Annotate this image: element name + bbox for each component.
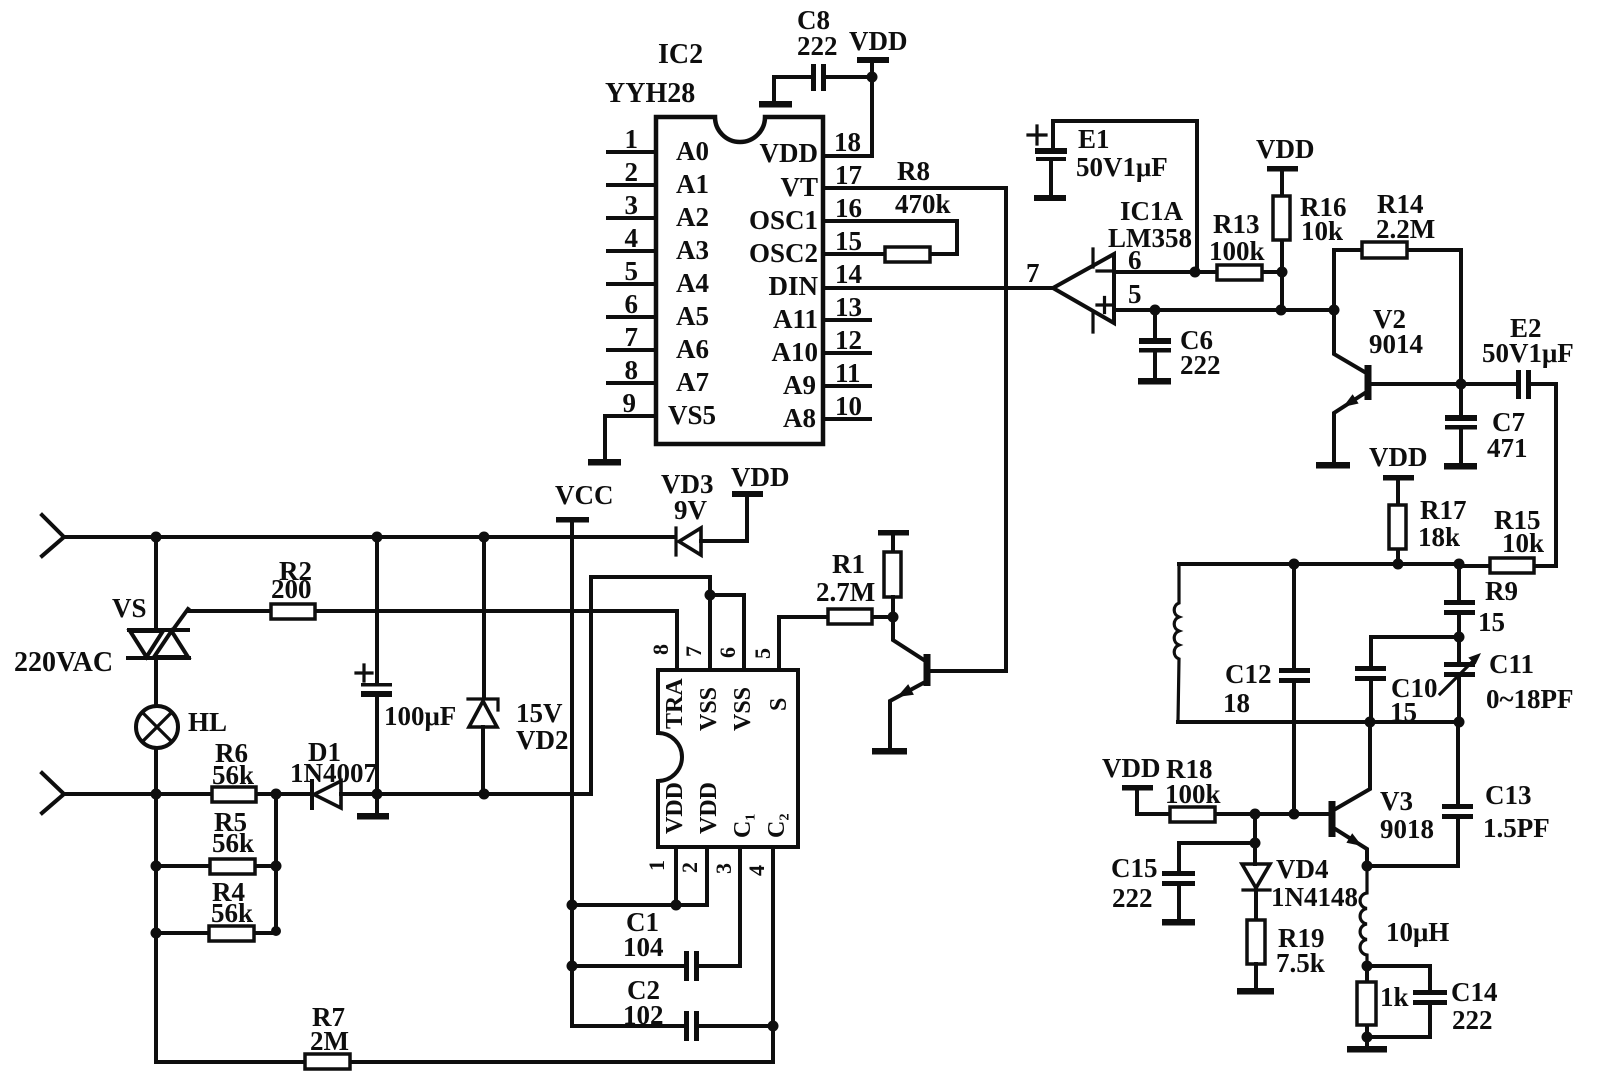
resistor R4 56k bbox=[156, 877, 276, 941]
U2 pin labels bottom row bbox=[662, 782, 790, 838]
svg-text:5: 5 bbox=[1128, 279, 1142, 309]
IC2 pin 2 bbox=[608, 157, 656, 187]
IC2 pin 3 bbox=[608, 190, 656, 220]
resistor R5 56k bbox=[156, 807, 276, 874]
svg-text:4: 4 bbox=[625, 223, 639, 253]
svg-text:A10: A10 bbox=[772, 337, 819, 367]
IC2 pin 4 bbox=[608, 223, 656, 253]
diode VD3 9V bbox=[661, 469, 747, 555]
U2 pins 7,6 (VSS) bbox=[681, 577, 744, 670]
svg-text:YYH28: YYH28 bbox=[605, 78, 695, 109]
capacitor E1 50V1uF electrolytic bbox=[1028, 121, 1168, 195]
capacitor R9 15 (series cap below R15 node) bbox=[1444, 564, 1518, 637]
capacitor C14 222 bbox=[1367, 966, 1498, 1037]
U2 pin 4 (C2) bbox=[696, 847, 779, 1062]
U2 pin 3 (C1) bbox=[696, 847, 740, 966]
IC2 pin 10 bbox=[823, 391, 870, 421]
svg-text:R1: R1 bbox=[832, 549, 865, 579]
svg-text:LM358: LM358 bbox=[1108, 223, 1192, 253]
svg-text:C15: C15 bbox=[1111, 853, 1158, 883]
transistor V3 9018 bbox=[1332, 722, 1434, 866]
IC2 pin 5 bbox=[608, 256, 656, 286]
svg-text:2.2M: 2.2M bbox=[1376, 214, 1435, 244]
svg-text:R8: R8 bbox=[897, 156, 930, 186]
wire VD4 branch bbox=[1179, 814, 1261, 849]
svg-text:V3: V3 bbox=[1380, 786, 1413, 816]
svg-text:TRA: TRA bbox=[662, 678, 688, 729]
svg-text:14: 14 bbox=[835, 259, 862, 289]
svg-text:VS: VS bbox=[112, 593, 147, 623]
svg-text:A2: A2 bbox=[676, 202, 709, 232]
capacitor E2 50V1uF bbox=[1461, 313, 1574, 566]
svg-text:15: 15 bbox=[1478, 607, 1505, 637]
svg-text:9014: 9014 bbox=[1369, 329, 1423, 359]
svg-text:IC1A: IC1A bbox=[1120, 196, 1184, 226]
VDD bar at VD3 bbox=[731, 462, 790, 497]
ground bar below E1 bbox=[1034, 195, 1066, 201]
svg-text:1N4148: 1N4148 bbox=[1271, 882, 1358, 912]
svg-text:3: 3 bbox=[625, 190, 639, 220]
svg-text:A9: A9 bbox=[783, 370, 816, 400]
VDD + resistor R17 18k bbox=[1369, 442, 1467, 564]
svg-text:VDD: VDD bbox=[731, 462, 790, 492]
capacitor C1 104 bbox=[572, 907, 699, 981]
wire top AC rail bbox=[64, 532, 674, 543]
ground below C6 bbox=[1138, 378, 1171, 385]
svg-text:10: 10 bbox=[835, 391, 862, 421]
svg-text:VD4: VD4 bbox=[1276, 854, 1329, 884]
capacitor C8 222 bbox=[774, 5, 872, 101]
svg-text:9018: 9018 bbox=[1380, 814, 1434, 844]
svg-text:1N4007: 1N4007 bbox=[290, 758, 377, 788]
IC2 right pin labels bbox=[749, 138, 819, 433]
svg-text:102: 102 bbox=[623, 1000, 664, 1030]
capacitor C12 18 bbox=[1223, 564, 1310, 814]
ground below 100uF bbox=[357, 813, 389, 820]
resistor R13 100k bbox=[1195, 209, 1281, 280]
svg-text:VCC: VCC bbox=[555, 480, 614, 510]
wire AC neutral bbox=[64, 789, 591, 800]
svg-text:R9: R9 bbox=[1485, 576, 1518, 606]
svg-text:A5: A5 bbox=[676, 301, 709, 331]
wire tank bottom rail bbox=[1178, 717, 1465, 728]
ground below C7 bbox=[1444, 463, 1477, 470]
ground at IC2 pin 9 bbox=[588, 459, 621, 466]
svg-text:A3: A3 bbox=[676, 235, 709, 265]
svg-text:50V1μF: 50V1μF bbox=[1482, 338, 1574, 368]
svg-text:A0: A0 bbox=[676, 136, 709, 166]
transistor V2 9014 bbox=[1334, 304, 1461, 462]
svg-text:1.5PF: 1.5PF bbox=[1483, 813, 1550, 843]
svg-text:5: 5 bbox=[750, 648, 775, 659]
svg-text:222: 222 bbox=[1112, 883, 1153, 913]
capacitor 100uF electrolytic bbox=[356, 537, 456, 813]
transistor V1 bbox=[890, 617, 1006, 748]
diode VD4 1N4148 bbox=[1242, 843, 1358, 920]
svg-text:C₁: C₁ bbox=[730, 813, 756, 838]
svg-text:VDD: VDD bbox=[849, 26, 908, 56]
svg-text:C12: C12 bbox=[1225, 659, 1272, 689]
ground below V2 bbox=[1316, 462, 1350, 469]
svg-text:56k: 56k bbox=[211, 898, 253, 928]
svg-text:IC2: IC2 bbox=[658, 39, 703, 70]
ground below C15 bbox=[1162, 919, 1195, 926]
resistor R2 200 bbox=[189, 556, 677, 619]
svg-text:C14: C14 bbox=[1451, 977, 1498, 1007]
svg-text:E1: E1 bbox=[1078, 124, 1110, 154]
svg-text:VSS: VSS bbox=[730, 687, 756, 731]
svg-text:200: 200 bbox=[271, 574, 312, 604]
svg-text:A11: A11 bbox=[773, 304, 818, 334]
capacitor C7 471 bbox=[1445, 379, 1528, 464]
inductor 10uH bbox=[1360, 866, 1449, 966]
svg-text:4: 4 bbox=[744, 865, 769, 876]
svg-text:2M: 2M bbox=[310, 1026, 349, 1056]
svg-text:18: 18 bbox=[834, 127, 861, 157]
IC2 pin 13 bbox=[823, 292, 870, 322]
VDD bar above pin18 bbox=[849, 26, 908, 83]
svg-text:50V1μF: 50V1μF bbox=[1076, 152, 1168, 182]
wire op-amp pin 5 bbox=[1114, 305, 1340, 316]
wire VSS riser bbox=[591, 577, 710, 794]
wire E1 loop to pin6 node bbox=[1053, 121, 1197, 272]
label 220VAC bbox=[14, 647, 113, 678]
svg-text:10k: 10k bbox=[1301, 216, 1343, 246]
svg-text:DIN: DIN bbox=[768, 271, 818, 301]
svg-text:1: 1 bbox=[625, 124, 639, 154]
svg-text:C₂: C₂ bbox=[764, 813, 790, 838]
svg-text:A4: A4 bbox=[676, 268, 709, 298]
svg-text:18: 18 bbox=[1223, 688, 1250, 718]
svg-text:56k: 56k bbox=[212, 760, 254, 790]
svg-text:C13: C13 bbox=[1485, 780, 1532, 810]
resistor R6 56k bbox=[212, 738, 256, 802]
svg-text:56k: 56k bbox=[212, 828, 254, 858]
svg-text:VDD: VDD bbox=[696, 782, 722, 834]
VCC symbol and rail down to U2 bbox=[555, 480, 614, 1026]
lamp HL bbox=[136, 706, 227, 748]
wire R6/R5/R4 right vertical bbox=[271, 794, 282, 936]
svg-text:A6: A6 bbox=[676, 334, 709, 364]
svg-text:8: 8 bbox=[625, 355, 639, 385]
svg-text:VS5: VS5 bbox=[668, 400, 716, 430]
svg-text:6: 6 bbox=[625, 289, 639, 319]
capacitor C15 222 bbox=[1111, 843, 1195, 919]
svg-text:OSC2: OSC2 bbox=[749, 238, 818, 268]
svg-text:7.5k: 7.5k bbox=[1276, 948, 1325, 978]
svg-text:100k: 100k bbox=[1165, 779, 1221, 809]
ground below V1 bbox=[872, 748, 907, 755]
input terminal top (AC line) bbox=[42, 515, 64, 556]
VDD + resistor R18 100k bbox=[1102, 753, 1332, 822]
capacitor C2 102 bbox=[572, 966, 699, 1041]
svg-text:13: 13 bbox=[835, 292, 862, 322]
svg-text:A1: A1 bbox=[676, 169, 709, 199]
IC2 pin 16 (OSC1) bbox=[823, 193, 957, 254]
ground below 1k bbox=[1347, 1046, 1387, 1053]
IC2 pin 7 bbox=[608, 322, 656, 352]
IC2 pin 17 (VT) long wire down to V1 collector bbox=[823, 160, 1006, 671]
resistor R14 2.2M feedback bbox=[1334, 189, 1461, 384]
svg-text:3: 3 bbox=[711, 863, 736, 874]
svg-text:15V: 15V bbox=[516, 698, 563, 728]
capacitor C13 1.5PF bbox=[1442, 722, 1550, 866]
svg-text:16: 16 bbox=[835, 193, 862, 223]
capacitor C11 0~18PF variable bbox=[1440, 632, 1574, 723]
resistor R7 2M bbox=[156, 1002, 773, 1069]
capacitor C6 222 bbox=[1139, 310, 1221, 380]
svg-text:VSS: VSS bbox=[696, 687, 722, 731]
input terminal bottom (AC neutral) bbox=[42, 773, 64, 813]
svg-text:VDD: VDD bbox=[1256, 134, 1315, 164]
resistor R15 10k bbox=[1459, 505, 1544, 573]
svg-text:2: 2 bbox=[625, 157, 639, 187]
IC2 pin 14 (DIN) to op-amp output bbox=[823, 259, 1053, 289]
zener VD2 15V bbox=[468, 537, 569, 794]
svg-text:10k: 10k bbox=[1502, 528, 1544, 558]
U2 pin 5 (S) bbox=[750, 617, 779, 670]
svg-text:R17: R17 bbox=[1420, 495, 1467, 525]
svg-text:A8: A8 bbox=[783, 403, 816, 433]
svg-text:7: 7 bbox=[625, 322, 639, 352]
IC2 pin 9 (VS5) to ground bbox=[605, 388, 656, 459]
svg-text:1k: 1k bbox=[1380, 982, 1409, 1012]
IC2 pin 12 bbox=[823, 325, 870, 355]
U2 pin 8 (TRA) bbox=[648, 611, 677, 670]
inductor (tank coil) bbox=[1174, 564, 1179, 722]
svg-text:0~18PF: 0~18PF bbox=[1486, 684, 1574, 714]
svg-text:VD2: VD2 bbox=[516, 725, 569, 755]
svg-text:HL: HL bbox=[188, 707, 227, 737]
svg-text:9V: 9V bbox=[674, 495, 708, 525]
svg-text:2.7M: 2.7M bbox=[816, 577, 875, 607]
capacitor C10 15 bbox=[1355, 637, 1459, 727]
IC2 pin 1 bbox=[608, 124, 656, 154]
svg-text:11: 11 bbox=[835, 358, 861, 388]
IC2 pin 18 (VDD) bbox=[823, 77, 872, 157]
ground at C8 bbox=[759, 101, 792, 108]
svg-text:VDD: VDD bbox=[662, 782, 688, 834]
svg-text:2: 2 bbox=[677, 862, 702, 873]
wire tank top rail bbox=[1179, 559, 1465, 570]
svg-text:471: 471 bbox=[1487, 433, 1528, 463]
svg-text:7: 7 bbox=[681, 646, 706, 657]
IC2 pin 8 bbox=[608, 355, 656, 385]
svg-text:1: 1 bbox=[644, 860, 669, 871]
svg-text:S: S bbox=[766, 698, 792, 711]
svg-text:12: 12 bbox=[835, 325, 862, 355]
svg-text:VDD: VDD bbox=[760, 138, 819, 168]
svg-text:C11: C11 bbox=[1489, 649, 1534, 679]
ground below R19 bbox=[1237, 988, 1274, 995]
svg-text:7: 7 bbox=[1026, 258, 1040, 288]
svg-text:18k: 18k bbox=[1418, 522, 1460, 552]
svg-text:5: 5 bbox=[625, 256, 639, 286]
svg-text:8: 8 bbox=[648, 644, 673, 655]
power bar above R1 bbox=[878, 530, 909, 552]
IC2 pin 6 bbox=[608, 289, 656, 319]
IC U2 body (TRA/VSS/VSS/S, VDD/VDD/C1/C2) bbox=[658, 670, 798, 847]
resistor R1 2.7M bbox=[779, 549, 899, 624]
op-amp IC1A LM358 bbox=[1026, 196, 1192, 332]
IC2 pin 11 bbox=[823, 358, 870, 388]
diode D1 1N4007 bbox=[290, 737, 377, 808]
IC2 left pin labels A0-A7,VS5 bbox=[668, 136, 716, 430]
svg-text:VDD: VDD bbox=[1369, 442, 1428, 472]
IC2 pin 15 (OSC2) + resistor R8 470k bbox=[823, 156, 957, 262]
svg-text:6: 6 bbox=[715, 647, 740, 658]
wire V3 emitter node bbox=[1362, 861, 1459, 872]
svg-text:15: 15 bbox=[835, 226, 862, 256]
svg-text:220VAC: 220VAC bbox=[14, 647, 113, 678]
svg-text:222: 222 bbox=[1180, 350, 1221, 380]
resistor R16 10k + VDD bbox=[1256, 134, 1347, 310]
resistor R19 7.5k bbox=[1247, 920, 1325, 988]
svg-text:VDD: VDD bbox=[1102, 753, 1161, 783]
resistor (vertical) above R1 node bbox=[884, 552, 901, 617]
svg-text:10μH: 10μH bbox=[1386, 917, 1449, 947]
resistor 1k bbox=[1357, 961, 1409, 1047]
svg-text:470k: 470k bbox=[895, 189, 951, 219]
U2 pin labels top row bbox=[662, 678, 792, 731]
svg-text:100μF: 100μF bbox=[384, 701, 456, 731]
svg-text:R13: R13 bbox=[1213, 209, 1260, 239]
svg-text:VT: VT bbox=[780, 172, 818, 202]
svg-text:17: 17 bbox=[835, 160, 862, 190]
svg-text:A7: A7 bbox=[676, 367, 709, 397]
svg-text:104: 104 bbox=[623, 932, 664, 962]
svg-text:OSC1: OSC1 bbox=[749, 205, 818, 235]
svg-text:100k: 100k bbox=[1209, 236, 1265, 266]
U2 pins 1,2 (VDD) bbox=[572, 847, 707, 911]
wire op-amp pin 6 bbox=[1114, 267, 1201, 278]
IC2 YYH28 body bbox=[605, 39, 823, 444]
svg-text:9: 9 bbox=[623, 388, 637, 418]
triac VS bbox=[112, 593, 189, 658]
svg-text:222: 222 bbox=[1452, 1005, 1493, 1035]
wire left main vertical bbox=[151, 537, 162, 1062]
svg-text:222: 222 bbox=[797, 31, 838, 61]
